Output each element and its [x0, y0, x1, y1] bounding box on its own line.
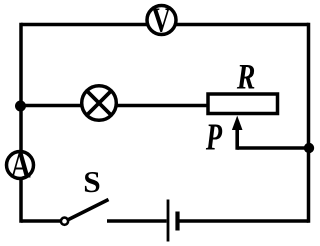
lamp cross stroke 1	[87, 91, 111, 115]
lamp L	[82, 86, 117, 121]
voltmeter V	[147, 6, 176, 35]
wire slider horizontal	[237, 146, 309, 150]
wire right vertical	[307, 23, 311, 223]
battery long plate (+)	[167, 200, 170, 242]
label P	[205, 117, 223, 159]
switch S pivot contact	[61, 218, 68, 225]
wire middle branch (lamp to rheostat)	[21, 104, 207, 108]
label A (ammeter)	[11, 146, 31, 187]
resistor R (rheostat body)	[208, 94, 278, 114]
node junction left	[15, 101, 26, 112]
wire left vertical	[19, 23, 23, 223]
switch S lever	[69, 200, 109, 220]
svg-text:V: V	[152, 2, 171, 40]
wire bottom right (battery to corner)	[180, 219, 309, 223]
node junction right	[304, 143, 314, 153]
svg-text:S: S	[83, 164, 100, 198]
svg-text:A: A	[11, 146, 31, 187]
label S	[83, 164, 100, 198]
wire slider vertical	[235, 128, 239, 150]
battery short plate (-)	[175, 212, 179, 231]
svg-text:R: R	[236, 56, 255, 96]
wire bottom middle (switch to battery)	[107, 219, 167, 223]
wire top horizontal	[21, 23, 309, 27]
lamp cross stroke 2	[87, 91, 111, 115]
label V (voltmeter)	[152, 2, 171, 40]
ammeter A	[7, 152, 34, 179]
slider arrow P	[232, 116, 243, 130]
wire bottom left (to switch)	[21, 219, 62, 223]
label R	[236, 56, 255, 96]
svg-text:P: P	[205, 117, 223, 159]
